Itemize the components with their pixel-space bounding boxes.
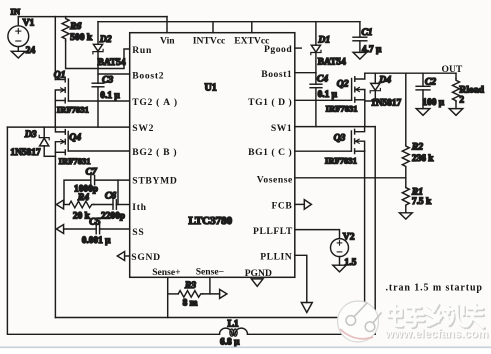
svg-text:236 k: 236 k xyxy=(412,154,434,164)
svg-text:C7: C7 xyxy=(86,167,98,178)
svg-text:SS: SS xyxy=(132,227,144,238)
svg-text:R6: R6 xyxy=(69,21,81,32)
wire Vosense line xyxy=(295,177,406,179)
svg-text:IN: IN xyxy=(11,7,21,17)
svg-text:PGND: PGND xyxy=(245,268,272,279)
ground under C1 xyxy=(353,52,367,59)
wire INTVcc rail xyxy=(98,21,360,23)
wire IN top rail xyxy=(18,16,167,18)
capacitor C3 xyxy=(92,74,120,101)
ground under C2 xyxy=(416,109,430,116)
wire SW1 line xyxy=(295,126,375,128)
svg-text:Boost1: Boost1 xyxy=(261,69,292,80)
wire BG2 gate lead xyxy=(68,150,130,152)
svg-text:D1: D1 xyxy=(317,35,330,46)
diode D1 BAT54 xyxy=(311,22,346,73)
wire Boost1 stub xyxy=(295,72,316,74)
op-amp U1 LTC3780 IC box xyxy=(130,33,295,278)
wire SW2 line xyxy=(7,126,129,128)
diode D4 1N5817 xyxy=(366,73,402,108)
wire INTVcc stub xyxy=(212,22,214,33)
wire BG1 gate lead xyxy=(295,150,352,152)
svg-text:INTVcc: INTVcc xyxy=(193,35,226,46)
svg-text:1.5: 1.5 xyxy=(344,257,356,268)
svg-text:Q1: Q1 xyxy=(54,70,66,81)
port arrow FCB xyxy=(295,200,312,210)
svg-text:BG1 ( C ): BG1 ( C ) xyxy=(248,147,292,158)
resistor R2 xyxy=(402,73,434,178)
wire D3 anode to Q4 source xyxy=(44,155,55,157)
svg-text:FCB: FCB xyxy=(271,201,292,212)
svg-text:Q2: Q2 xyxy=(337,79,349,90)
svg-text:Ith: Ith xyxy=(132,202,146,213)
diode D3 1N5817 xyxy=(10,127,49,158)
resistor R6 xyxy=(62,17,93,44)
svg-text:8 m: 8 m xyxy=(183,299,198,309)
svg-text:C4: C4 xyxy=(317,73,328,84)
svg-text:www.elecfans.com: www.elecfans.com xyxy=(384,328,488,341)
svg-text:C6: C6 xyxy=(105,191,116,202)
wire Q3 source down to PGND rail xyxy=(364,151,366,317)
watermark url text xyxy=(384,328,489,342)
svg-text:SW1: SW1 xyxy=(271,123,292,134)
wire Pgood stub xyxy=(295,47,301,49)
ground under V1 xyxy=(11,51,25,58)
wire D2 to Boost2/C3 xyxy=(97,69,99,84)
pin labels left xyxy=(131,45,177,263)
svg-text:Vosense: Vosense xyxy=(257,174,293,185)
svg-text:20 k: 20 k xyxy=(73,212,91,222)
svg-text:C3: C3 xyxy=(102,74,113,85)
svg-text:2200p: 2200p xyxy=(101,212,125,222)
ground under R1 xyxy=(399,213,412,219)
voltage source V1 xyxy=(8,17,35,56)
wire left loop SW2 to bottom xyxy=(7,127,219,334)
svg-text:0.1 μ: 0.1 μ xyxy=(318,90,338,100)
capacitor C7 xyxy=(74,167,98,195)
node OUT label xyxy=(442,64,463,75)
wire PLLIN with down arrow xyxy=(295,255,313,312)
capacitor C2 xyxy=(416,73,445,108)
wire Q4 source down xyxy=(54,152,56,317)
svg-text:.tran 1.5 m startup: .tran 1.5 m startup xyxy=(386,283,483,294)
wire Sense- down xyxy=(209,277,211,294)
wire Sense+ down xyxy=(167,277,169,317)
diode D2 BAT54 xyxy=(93,22,126,69)
svg-text:Q4: Q4 xyxy=(69,132,81,143)
svg-text:R3: R3 xyxy=(184,280,196,291)
wire C3 to SW2 xyxy=(97,87,99,127)
svg-text:BG2 ( B ): BG2 ( B ) xyxy=(132,147,177,158)
svg-text:100 μ: 100 μ xyxy=(422,98,444,108)
svg-text:IRF7831: IRF7831 xyxy=(57,105,89,115)
svg-text:0.001 μ: 0.001 μ xyxy=(82,236,111,246)
svg-text:R4: R4 xyxy=(77,192,89,203)
svg-text:LTC3780: LTC3780 xyxy=(189,215,233,227)
resistor Rload xyxy=(453,73,485,108)
svg-text:6.8 μ: 6.8 μ xyxy=(220,338,240,348)
capacitor C6 xyxy=(101,191,125,222)
port arrow Sense- net xyxy=(220,289,227,298)
voltage source V2 xyxy=(331,231,357,268)
svg-text:Sense+: Sense+ xyxy=(152,267,180,278)
svg-text:TG1 ( D ): TG1 ( D ) xyxy=(248,97,292,108)
svg-text:V1: V1 xyxy=(23,18,35,29)
svg-text:SW2: SW2 xyxy=(132,123,154,134)
port arrow SS net xyxy=(56,225,63,234)
svg-text:7.5 k: 7.5 k xyxy=(412,197,432,207)
wire EXTVcc stub xyxy=(251,22,253,33)
capacitor C4 xyxy=(310,73,338,127)
transistor Q1 IRF7831 xyxy=(54,70,89,115)
svg-text:D3: D3 xyxy=(24,129,37,140)
svg-text:STBYMD: STBYMD xyxy=(132,176,177,187)
svg-text:24: 24 xyxy=(26,45,36,56)
svg-text:0.1 μ: 0.1 μ xyxy=(100,91,120,101)
svg-text:R1: R1 xyxy=(411,186,423,197)
svg-text:IRF7831: IRF7831 xyxy=(326,104,358,114)
svg-text:C5: C5 xyxy=(89,216,100,227)
inductor L1 xyxy=(220,318,248,347)
wire SS line xyxy=(64,228,97,230)
svg-text:Rload: Rload xyxy=(459,84,484,95)
svg-text:Vin: Vin xyxy=(160,35,175,46)
wire bottom rail to SW1 riser xyxy=(248,127,376,335)
wire Q1 drain from rail xyxy=(54,17,56,80)
svg-text:V2: V2 xyxy=(343,231,355,242)
wire Boost2 stub xyxy=(98,73,130,75)
pin labels right xyxy=(248,44,293,263)
transistor Q2 IRF7831 xyxy=(326,73,365,114)
svg-text:Sense−: Sense− xyxy=(196,267,224,278)
svg-text:C2: C2 xyxy=(425,77,436,88)
resistor R4 xyxy=(64,192,94,222)
wire R4 to C6 xyxy=(94,204,113,206)
ground under V2 xyxy=(333,265,346,272)
svg-text:U1: U1 xyxy=(205,83,217,94)
svg-text:1N5817: 1N5817 xyxy=(371,99,402,109)
port arrow PGND xyxy=(251,279,263,286)
wire STBYMD line with C7 xyxy=(64,180,130,204)
svg-text:IRF7831: IRF7831 xyxy=(325,155,357,165)
svg-text:BAT54: BAT54 xyxy=(98,58,126,68)
resistor R1 xyxy=(402,178,432,213)
svg-text:TG2 ( A ): TG2 ( A ) xyxy=(132,97,177,108)
svg-text:D4: D4 xyxy=(378,74,391,85)
wire Q1 source to SW2 xyxy=(54,101,56,128)
svg-text:1N5817: 1N5817 xyxy=(10,148,41,158)
wire TG1 line xyxy=(295,99,352,101)
capacitor C1 xyxy=(353,22,382,55)
capacitor C5 xyxy=(82,216,111,245)
svg-text:D2: D2 xyxy=(99,34,112,45)
svg-text:Run: Run xyxy=(132,45,152,56)
svg-text:2: 2 xyxy=(459,96,464,106)
svg-text:SGND: SGND xyxy=(131,252,160,263)
transistor Q4 IRF7831 xyxy=(55,127,90,166)
svg-text:C1: C1 xyxy=(361,27,372,38)
wire R6 bottom to Run xyxy=(66,41,130,69)
bottom border line xyxy=(0,347,491,348)
svg-text:L1: L1 xyxy=(228,318,239,329)
svg-text:500 k: 500 k xyxy=(70,32,93,43)
svg-text:Boost2: Boost2 xyxy=(132,71,164,82)
wire Q2 source to SW1 xyxy=(364,100,366,127)
watermark logo circle xyxy=(338,301,382,342)
ground under Rload xyxy=(449,109,463,116)
wire PGND rail xyxy=(55,317,365,319)
wire C6 to Ith pin xyxy=(116,204,129,206)
node IN label xyxy=(11,7,21,17)
watermark chinese text dianzifashaoyou xyxy=(388,304,484,329)
wire C5 to SS pin xyxy=(100,228,130,230)
wire TG2 gate lead xyxy=(68,100,129,102)
svg-text:Q3: Q3 xyxy=(334,132,346,143)
svg-text:PLLFLT: PLLFLT xyxy=(253,226,293,237)
svg-text:EXTVcc: EXTVcc xyxy=(234,36,270,47)
port arrow SGND xyxy=(117,252,129,261)
pin labels top and bottom xyxy=(152,35,272,278)
wire Vin step xyxy=(166,17,168,33)
resistor R3 xyxy=(168,280,220,309)
transistor Q3 IRF7831 xyxy=(325,127,365,166)
svg-text:PLLIN: PLLIN xyxy=(260,252,292,263)
port arrow Ith net xyxy=(56,200,63,209)
wire PLLFLT to V2 xyxy=(295,230,340,239)
wire OUT line xyxy=(365,72,456,74)
svg-text:BAT54: BAT54 xyxy=(318,58,346,68)
text .tran directive xyxy=(386,283,483,294)
svg-text:IRF7831: IRF7831 xyxy=(59,156,91,166)
svg-text:OUT: OUT xyxy=(442,64,463,75)
svg-text:R2: R2 xyxy=(411,142,423,153)
